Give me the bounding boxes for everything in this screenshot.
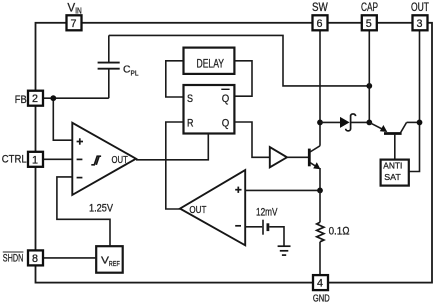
svg-text:3: 3 (417, 18, 423, 30)
svg-text:0.1Ω: 0.1Ω (329, 225, 351, 237)
wire FB node down to A1 + input (53, 98, 72, 140)
svg-text:S: S (187, 93, 193, 105)
svg-text:ANTI: ANTI (383, 161, 402, 171)
wire 12mV to ground (269, 227, 284, 246)
wire 1.25V reference to A1 (57, 177, 110, 246)
wire FB pin to CPL bottom (43, 97, 109, 99)
wire Q output to driver buffer (234, 122, 269, 157)
minus input A2 (235, 225, 241, 227)
pin 4 GND (313, 275, 328, 290)
svg-text:V: V (101, 255, 109, 267)
plus input A2 (235, 187, 241, 193)
wire CPL top to CAP net (109, 35, 369, 86)
svg-text:V: V (67, 1, 75, 15)
svg-text:R: R (187, 117, 194, 129)
latch U1 SR flip-flop (184, 85, 235, 134)
op-amp A2 current comparator (180, 170, 245, 245)
svg-text:5: 5 (366, 18, 372, 30)
pin 8 SHDN (28, 250, 43, 265)
IC package border (36, 23, 433, 283)
label GND (313, 294, 330, 303)
svg-text:GND: GND (313, 294, 330, 303)
wire CAP pin down through junctions (368, 30, 370, 122)
wire OUT pin down to collector and anti-sat (409, 30, 420, 171)
svg-text:FB: FB (15, 94, 27, 106)
op-amp A1 hysteretic comparator (72, 123, 136, 195)
node CAP-schottky (366, 120, 372, 126)
buffer driver (270, 147, 287, 167)
node CAP-CPL junction (366, 83, 372, 89)
label SW (312, 0, 328, 14)
svg-text:OUT: OUT (112, 154, 129, 166)
wire A2 + input to emitter sense node (245, 189, 320, 191)
svg-text:2: 2 (32, 93, 38, 105)
svg-text:PL: PL (131, 69, 139, 78)
pin 3 OUT (413, 15, 428, 30)
label CAP (361, 0, 378, 14)
label 12mV (256, 206, 278, 218)
svg-text:CTRL: CTRL (2, 153, 27, 165)
label SHDN with overline (3, 252, 24, 265)
svg-text:OUT: OUT (189, 204, 206, 216)
svg-text:6: 6 (317, 18, 323, 30)
pin 2 FB (28, 91, 43, 106)
wire A1 OUT to latch bottom (136, 134, 208, 160)
label 0.1ohm (329, 225, 351, 237)
svg-text:IN: IN (75, 7, 82, 16)
svg-text:1: 1 (32, 154, 38, 166)
svg-text:REF: REF (109, 259, 120, 268)
wire CTRL pin to A1 (43, 158, 72, 160)
transistor Q2 output PNP (369, 122, 419, 159)
wire buffer to Q1 base (287, 156, 308, 158)
pin 5 CAP (362, 15, 377, 30)
svg-text:7: 7 (71, 18, 77, 30)
node emitter sense (317, 188, 323, 194)
label 1.25V (89, 203, 114, 215)
node SW-collector (317, 120, 323, 126)
wire SW node to schottky (320, 121, 340, 123)
wire A2 OUT up to R input (166, 122, 184, 209)
hysteresis symbol (91, 156, 101, 165)
battery 12mV offset (263, 220, 268, 235)
wire SW pin down to switch collector node (319, 30, 321, 122)
svg-text:1.25V: 1.25V (89, 203, 114, 215)
label FB (15, 94, 27, 106)
minus input A1 mid (77, 158, 83, 160)
block DELAY (184, 48, 235, 74)
svg-text:12mV: 12mV (256, 206, 278, 218)
capacitor CPL (98, 35, 120, 98)
wire Qbar to DELAY input (234, 61, 252, 96)
pin 7 VIN (67, 15, 82, 30)
block ANTI SAT (381, 160, 409, 186)
svg-text:DELAY: DELAY (197, 57, 225, 71)
svg-text:8: 8 (32, 253, 38, 265)
svg-text:Q: Q (222, 93, 230, 105)
label OUT (411, 0, 429, 14)
svg-text:SAT: SAT (384, 172, 401, 182)
minus input A1 low (77, 177, 83, 179)
wire A2 - input to 12mV source (245, 226, 262, 228)
ground (278, 246, 291, 255)
block VREF (96, 246, 123, 273)
resistor R1 0.1ohm (317, 190, 324, 275)
wire schottky to CAP node (351, 121, 370, 123)
svg-text:CAP: CAP (361, 0, 378, 14)
svg-text:SHDN: SHDN (3, 253, 24, 265)
diode D1 schottky (340, 114, 356, 131)
transistor Q1 power NPN (309, 122, 320, 190)
node OUT-collector (417, 120, 423, 126)
svg-text:SW: SW (312, 0, 328, 14)
pin 1 CTRL (28, 152, 43, 167)
node FB junction (50, 95, 56, 101)
svg-text:Q: Q (222, 117, 230, 129)
pin 6 SW (313, 15, 328, 30)
svg-text:OUT: OUT (411, 0, 429, 14)
svg-text:4: 4 (317, 278, 323, 290)
plus input A1 (77, 138, 83, 144)
label VIN (67, 1, 81, 16)
label CPL (123, 64, 139, 78)
wire SHDN pin to VREF (43, 257, 96, 259)
wire DELAY output to S input (166, 61, 184, 97)
label CTRL (2, 153, 27, 165)
